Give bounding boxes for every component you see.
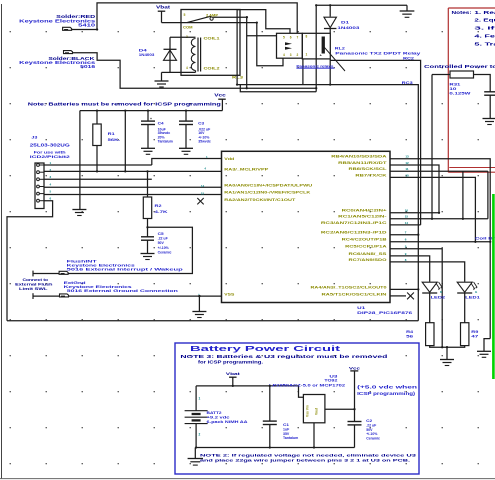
svg-text:2. Equ: 2. Equ [474, 17, 495, 22]
battery BATT2 wires [195, 386, 197, 411]
wire top to ground and D1 [316, 4, 407, 6]
header J3 pin 6 [37, 199, 40, 202]
notes box [448, 7, 495, 9]
svg-text:Panasonic TX2 DPDT Relay: Panasonic TX2 DPDT Relay [335, 50, 421, 55]
wire RC1 row [390, 218, 488, 220]
wire under relay [329, 59, 331, 85]
svg-text:Ceramic: Ceramic [158, 250, 172, 254]
capacitor C4 stem [147, 111, 149, 121]
svg-text:1N4003: 1N4003 [139, 52, 155, 57]
wire J3 pin2 MCLR [44, 170, 222, 172]
LED1 [457, 282, 472, 292]
ground C3 [179, 147, 193, 149]
svg-text:(+5.0 vdc when: (+5.0 vdc when [357, 385, 418, 390]
ExtGnd stub [33, 295, 60, 297]
relay RL3 coil [191, 39, 195, 47]
wire loop to pin6 [237, 10, 290, 85]
wire RC5 row [390, 249, 442, 347]
ground RL3 [155, 80, 169, 82]
wire X2 battery negative [72, 53, 316, 88]
svg-text:and place 22ga wire jumper bet: and place 22ga wire jumper between pins … [200, 458, 410, 463]
relay RL2 pin box [277, 33, 303, 58]
battery ground [194, 448, 196, 459]
svg-text:13: 13 [405, 155, 409, 159]
svg-text:C4: C4 [158, 121, 164, 125]
net RC3 wire [237, 85, 418, 321]
wire J3 pin6 down [7, 201, 53, 321]
capacitor C1 [263, 420, 277, 422]
relay RL2 coil bar [322, 37, 325, 54]
svg-text:47: 47 [471, 334, 478, 339]
Vcc rail [80, 110, 223, 112]
svg-text:4.7K: 4.7K [155, 209, 168, 214]
ground top right [406, 5, 408, 11]
ground right lower [477, 350, 491, 352]
capacitor C4 lower stem [147, 125, 149, 149]
IC U1 box [222, 151, 391, 302]
capacitor C3 [179, 120, 193, 122]
wire LED join [430, 346, 465, 348]
svg-text:1. Rea: 1. Rea [474, 10, 495, 15]
ExtGnd plug [60, 294, 69, 297]
svg-text:Vbat: Vbat [226, 371, 241, 376]
header J3 pin 5 [37, 192, 40, 195]
svg-text:COM: COM [183, 25, 193, 29]
svg-text:1N4003: 1N4003 [337, 25, 360, 30]
wire J3 pin1 Vcc [44, 164, 152, 166]
svg-text:D1: D1 [341, 20, 350, 25]
capacitor C5 [141, 236, 154, 238]
VSS junction [198, 295, 200, 297]
battery top rail [196, 386, 303, 397]
wire loop L2 [246, 17, 248, 88]
svg-text:5: 5 [283, 36, 285, 40]
wire join to ground [446, 347, 448, 359]
resistor R1 wires [96, 111, 98, 124]
connector X2 plug [64, 51, 73, 54]
battery BATT2 symbol [185, 410, 208, 412]
svg-text:5. Tra: 5. Tra [474, 41, 495, 46]
svg-text:TO92: TO92 [324, 378, 337, 382]
svg-text:12: 12 [405, 161, 409, 165]
svg-text:25L03-302UG: 25L03-302UG [30, 143, 71, 148]
wire C5 to ground [147, 240, 149, 253]
svg-text:R2: R2 [155, 203, 163, 208]
svg-text:1: 1 [306, 53, 308, 57]
wire C30 to ground [489, 95, 491, 118]
wire RB6 drop a [462, 171, 464, 219]
regulator U3 box [303, 395, 325, 423]
svg-text:2: 2 [199, 433, 201, 437]
battery bottom rail [196, 447, 354, 449]
wire RC4 row [390, 241, 490, 243]
svg-text:DIP28_PIC16F876: DIP28_PIC16F876 [357, 310, 413, 315]
svg-text:+: + [150, 117, 152, 121]
svg-text:Controlled Power to: Controlled Power to [424, 64, 495, 69]
svg-text:Limit SWL: Limit SWL [19, 286, 48, 291]
wire to RL3 ground [162, 71, 171, 73]
svg-text:RA2/AN2/T0CKI/INT/C1OUT: RA2/AN2/T0CKI/INT/C1OUT [224, 198, 296, 202]
svg-text:14: 14 [201, 184, 205, 188]
header J3 box [35, 163, 44, 209]
wire relay loop vertical [315, 5, 317, 91]
svg-text:5: 5 [184, 13, 186, 17]
capacitor C30 [484, 91, 495, 93]
svg-text:15: 15 [201, 192, 205, 196]
relay RL2 pointer line [323, 45, 346, 71]
svg-text:0.125W: 0.125W [449, 92, 471, 96]
ground bus bottom [7, 320, 418, 322]
svg-text:Vcc: Vcc [349, 365, 361, 370]
svg-text:VSS: VSS [224, 292, 235, 296]
svg-text:Battery Power Circuit: Battery Power Circuit [190, 346, 342, 353]
wire coil drive row [240, 85, 316, 92]
ground LED [440, 359, 454, 361]
svg-text:C2: C2 [366, 419, 372, 423]
resistor R9 [461, 323, 469, 346]
OSC1 no-connect [390, 295, 406, 297]
svg-text:Notes:: Notes: [452, 10, 472, 15]
FlushINT stub [33, 273, 59, 275]
capacitor C2 [348, 421, 362, 423]
wire RB6 row [390, 170, 488, 172]
svg-text:Note: Batteries must be remov: Note: Batteries must be removed for ICSP… [28, 102, 221, 107]
svg-text:RC4/C2OUT/P1B: RC4/C2OUT/P1B [342, 238, 388, 242]
svg-text:35V: 35V [283, 432, 290, 436]
wire J3 pin3 [44, 178, 152, 180]
svg-text:7: 7 [297, 36, 299, 40]
resistor R2 [143, 197, 151, 219]
wire diode branch [169, 37, 171, 72]
wire J3 pin5 [44, 194, 222, 196]
ground C4 [141, 147, 155, 149]
wire C5 loop to FlushINT [68, 227, 192, 273]
wire ExtGnd to VSS [69, 295, 222, 297]
wire X1 to Vbat loop [72, 3, 298, 33]
svg-text:1uF: 1uF [283, 427, 290, 431]
wire LED1 to R9 [464, 293, 466, 323]
svg-text:RA0/AN0/C1IN+/ICSPDAT/ULPWU: RA0/AN0/C1IN+/ICSPDAT/ULPWU [224, 184, 313, 188]
svg-text:RC6/AN8/_SS: RC6/AN8/_SS [349, 252, 388, 256]
capacitor C1 stem [269, 386, 271, 421]
svg-text:5016 External Interrupt / Wak: 5016 External Interrupt / Wakeup [67, 267, 184, 272]
svg-text:LED1: LED1 [465, 294, 481, 299]
svg-text:C1: C1 [283, 423, 289, 427]
svg-text:RC1/AN5/C12IN-: RC1/AN5/C12IN- [338, 215, 388, 219]
header J3 pin 3 [37, 178, 40, 181]
svg-text:J3: J3 [31, 136, 37, 140]
svg-text:Tantalum: Tantalum [283, 436, 298, 440]
wire rail drop mid [124, 111, 126, 172]
connector X1 plug [63, 27, 72, 30]
battery bottom wire [195, 424, 197, 448]
diode D1 [324, 17, 337, 28]
wire RC7 row LED1 feed [390, 262, 465, 282]
wire RB5 row [390, 165, 439, 213]
svg-text:35wvdc: 35wvdc [198, 139, 211, 143]
wire RC2 row [390, 234, 418, 236]
svg-text:14: 14 [405, 221, 409, 225]
wire RC3 row [390, 224, 421, 226]
svg-text:RA4/AN3/_T1OSC2/CLKOUT0: RA4/AN3/_T1OSC2/CLKOUT0 [311, 285, 387, 289]
wire Vdd jog [152, 159, 222, 166]
svg-text:RB7/TX/CK: RB7/TX/CK [355, 173, 387, 177]
svg-text:3. If: 3. If [474, 25, 495, 30]
LED2 [422, 282, 437, 292]
svg-text:RC3/AN7/C12IN3-/P1C: RC3/AN7/C12IN3-/P1C [321, 221, 387, 225]
wire R31 right [474, 75, 491, 92]
wire LED2 to R4 [429, 293, 431, 323]
FlushINT plug [59, 271, 68, 274]
svg-text:11: 11 [405, 167, 409, 171]
svg-text:8: 8 [306, 35, 308, 39]
svg-text:Ceramic: Ceramic [366, 437, 380, 441]
header J3 pin 2 [37, 171, 40, 174]
header J3 pin 1 [37, 164, 40, 167]
svg-text:.22 uF: .22 uF [366, 423, 377, 427]
svg-text:4: 4 [186, 66, 188, 70]
wire R2 to C5 [147, 219, 149, 237]
svg-text:4: 4 [283, 53, 285, 57]
wire RB6 drop b [487, 171, 489, 219]
wire Vbat to relay switch [162, 22, 257, 24]
wire RL3 contact out [213, 16, 247, 18]
resistor R2 wire top [147, 171, 149, 197]
capacitor C4 [141, 120, 155, 122]
svg-text:RB5/AN11/RX/DT: RB5/AN11/RX/DT [338, 161, 388, 165]
battery box [175, 343, 419, 474]
net RC2 wire [330, 60, 420, 225]
svg-text:LED2: LED2 [431, 294, 447, 299]
frame border bottom [0, 478, 495, 480]
svg-text:6-pack NiMH AA: 6-pack NiMH AA [207, 420, 248, 424]
ground left [72, 209, 86, 211]
capacitor C3 lower stem [185, 125, 187, 149]
frame border left [1, 4, 3, 479]
svg-text:+/-10%: +/-10% [366, 432, 378, 436]
svg-text:+/-10%: +/-10% [158, 246, 170, 250]
svg-text:C5: C5 [158, 232, 164, 236]
svg-text:Vout: Vout [315, 407, 319, 415]
svg-text:.22 uF: .22 uF [158, 237, 169, 241]
svg-text:50V: 50V [158, 241, 165, 245]
svg-text:RB6/SCK/SCL: RB6/SCK/SCL [349, 167, 388, 171]
svg-text:15: 15 [405, 215, 409, 219]
wire rail to MCLR [79, 111, 81, 210]
svg-text:ICSP programming): ICSP programming) [357, 391, 416, 396]
svg-text:LP2950ACZ-5.0 or MCP1702: LP2950ACZ-5.0 or MCP1702 [269, 383, 345, 387]
svg-text:Tantalum: Tantalum [158, 139, 173, 143]
svg-text:RA3/_MCLR/VPP: RA3/_MCLR/VPP [224, 168, 269, 172]
wire R31 left [432, 74, 450, 76]
svg-text:R31: R31 [449, 82, 460, 86]
resistor R4 [426, 323, 434, 346]
svg-text:RA1/AN1/C12IN0-/VREF/ICSPCLK: RA1/AN1/C12IN0-/VREF/ICSPCLK [224, 191, 311, 195]
ground C5 [141, 253, 155, 255]
ground VSS [198, 296, 200, 311]
relay RL2 moving contacts [285, 42, 292, 45]
relay RL3 switch blade [187, 16, 211, 22]
svg-text:COIL1: COIL1 [204, 37, 220, 41]
svg-text:BATT2: BATT2 [207, 411, 222, 415]
svg-text:5410: 5410 [78, 23, 96, 28]
wire pin2 riser [302, 59, 304, 85]
svg-text:16: 16 [405, 209, 409, 213]
wire R31 to PIC [431, 75, 433, 219]
svg-text:10: 10 [449, 87, 456, 91]
wire OSC2 row [390, 288, 418, 290]
svg-text:RC0/AN4/C2IN+: RC0/AN4/C2IN+ [342, 209, 387, 213]
regulator ground pin [313, 423, 315, 448]
svg-text:for ICSP programming.: for ICSP programming. [198, 359, 263, 364]
resistor R31 [450, 71, 474, 78]
green highlight wire [492, 194, 495, 379]
wire RC6 row LED2 feed [390, 256, 430, 282]
diode D1 wire [329, 5, 331, 16]
wire J3 pin4 [44, 186, 222, 188]
svg-text:RC5/CCP1/P1A: RC5/CCP1/P1A [345, 245, 387, 249]
svg-text:COIL2: COIL2 [204, 67, 220, 71]
svg-text:Vdd: Vdd [224, 157, 234, 161]
relay RL3 box [181, 10, 240, 76]
svg-text:5016: 5016 [80, 64, 96, 69]
header J3 pin 4 [37, 185, 40, 188]
svg-text:ICD2/PICkit2: ICD2/PICkit2 [30, 154, 71, 159]
svg-text:RC7/AN9/SDO: RC7/AN9/SDO [349, 258, 387, 262]
wire coil top [170, 36, 196, 38]
svg-text:5016 External Ground Connecti: 5016 External Ground Connection [67, 288, 179, 293]
wire RB4 row [390, 159, 490, 339]
svg-text:10: 10 [405, 173, 409, 177]
regulator output wire [325, 408, 355, 410]
capacitor C3 stem [185, 111, 187, 121]
svg-text:Vbat: Vbat [156, 5, 171, 10]
svg-text:RC2/AN6/C12IN3-/P1D: RC2/AN6/C12IN3-/P1D [321, 231, 387, 235]
wire pin5 branch [247, 35, 277, 37]
svg-text:3: 3 [290, 53, 292, 57]
svg-text:Vcc: Vcc [214, 93, 227, 98]
resistor R1 [93, 124, 101, 146]
wire coil bottom [170, 71, 196, 73]
svg-text:Coil Dr: Coil Dr [475, 237, 495, 241]
svg-text:RA5/T1CK/OSC1/CLKIN: RA5/T1CK/OSC1/CLKIN [322, 292, 388, 296]
wire to ground right [484, 339, 490, 352]
diode D4 [164, 48, 177, 50]
svg-text:RB4/AN10/SD3/SDA: RB4/AN10/SD3/SDA [331, 155, 387, 159]
svg-text:+9.2 vdc: +9.2 vdc [207, 416, 230, 420]
wire RB7 row [390, 177, 475, 241]
svg-text:4. Fer: 4. Fer [474, 33, 495, 38]
relay RL2 contact box [302, 33, 330, 59]
svg-text:1: 1 [199, 397, 201, 401]
svg-text:6: 6 [290, 36, 292, 40]
svg-text:R1: R1 [108, 131, 116, 136]
svg-text:C3: C3 [198, 121, 204, 125]
svg-text:50V: 50V [366, 428, 373, 432]
ground C30 [483, 118, 495, 120]
svg-text:56K-: 56K- [108, 137, 122, 142]
svg-text:2: 2 [297, 53, 299, 57]
svg-text:Vss Vin: Vss Vin [306, 405, 310, 417]
wire RC0 row [390, 212, 439, 214]
junction dots [96, 109, 98, 111]
wire switch drop [257, 23, 283, 66]
capacitor C2 stem [354, 409, 356, 421]
